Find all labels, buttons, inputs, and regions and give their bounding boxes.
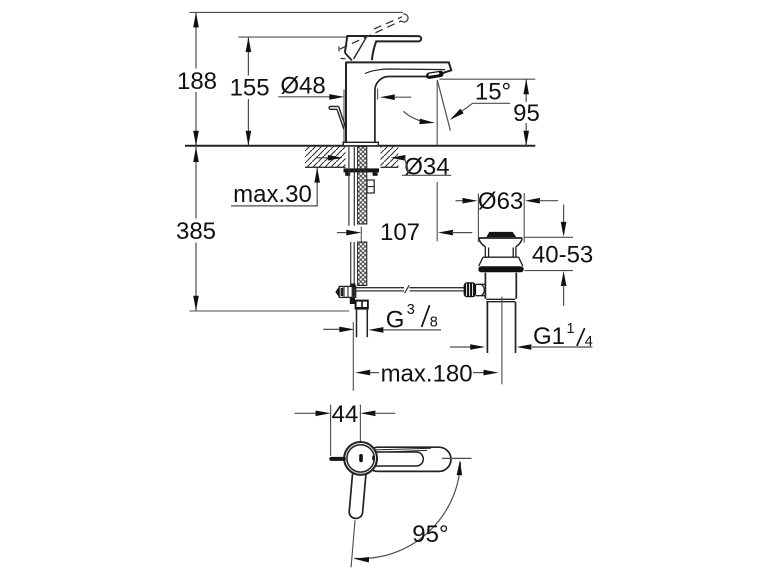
flexible hoses upper [349, 147, 354, 226]
15 deg arc [403, 111, 433, 122]
pop-up rod knurled knob [464, 282, 477, 297]
Ø48 extension line right [377, 89, 379, 100]
handle lever [345, 36, 421, 60]
handle raised dashed line 2 [374, 17, 402, 29]
pop-up waste flange cap [486, 232, 516, 237]
threaded shank lower [358, 242, 367, 286]
faucet base plate [343, 142, 378, 146]
deck bottom line [305, 166, 398, 168]
svg-text:95: 95 [513, 100, 540, 127]
95 deg arc arrowhead top [457, 460, 463, 475]
G1 1/4 arrow right [516, 344, 531, 350]
handle base left lower edge [345, 53, 352, 61]
max.180 arrow right [473, 372, 484, 374]
15 deg leader line [452, 103, 511, 118]
dimension Ø63 extension lines [478, 193, 524, 243]
dimension 155 line [247, 37, 249, 146]
top view pin [329, 457, 346, 461]
dimension 385 arrow bottom [193, 296, 199, 311]
Ø48 arrow left [329, 94, 344, 100]
dimension 385 line [195, 147, 197, 311]
pop-up waste tailpipe [487, 302, 515, 353]
G 3/8 underline [383, 329, 441, 331]
top view lever inner [352, 452, 423, 466]
handle base inner diagonal [354, 37, 367, 59]
95 deg arc [354, 462, 460, 559]
top view spout [349, 468, 367, 519]
threaded shank upper [358, 147, 367, 224]
flexible hoses lower [351, 242, 355, 298]
dimension 95 arrow top [523, 79, 529, 94]
pop-up waste O-ring [478, 266, 523, 272]
95 deg arc arrowhead bottom [354, 557, 369, 563]
dimension 188 arrow top [193, 12, 199, 27]
Ø48 leader underline [278, 96, 330, 98]
deck hatch right [381, 147, 399, 168]
supply pipe [357, 310, 368, 338]
pop-up waste body [485, 273, 516, 299]
svg-text:3: 3 [407, 302, 415, 318]
handle raised dashed tip curl [401, 14, 408, 22]
svg-text:G: G [386, 306, 405, 333]
pop-up waste bottom ring [486, 299, 515, 301]
G 3/8 arrowhead right [368, 327, 383, 333]
dimension 107 line left [337, 232, 348, 234]
svg-text:155: 155 [230, 75, 270, 102]
G 3/8 arrow left [323, 328, 341, 330]
dimension 107 arrow right [438, 230, 453, 236]
top view lever sliver lines [374, 448, 431, 452]
dimension 40-53 arrow lower [561, 271, 567, 286]
dimension 40-53 extension lines [525, 237, 574, 270]
pop-up rod joint fitting [339, 286, 356, 297]
dimension 95 line [525, 79, 527, 146]
svg-text:8: 8 [430, 315, 438, 331]
95 top extension line [440, 78, 536, 80]
Ø34 underline [402, 174, 451, 176]
faucet spout underside and fillet [375, 76, 427, 142]
svg-text:1: 1 [567, 321, 575, 337]
handle raised dashed bottom edge [341, 57, 348, 60]
svg-text:max.180: max.180 [381, 361, 473, 388]
dimension 188 arrow bottom [193, 131, 199, 146]
dimension 40-53 arrow upper [563, 205, 565, 224]
max.180 extension line left [352, 322, 354, 391]
dimension 188 extension line top [190, 11, 404, 13]
dimension 188 line [195, 12, 197, 145]
Ø34 arrow left [316, 157, 329, 159]
Ø48 extension line left [343, 90, 345, 144]
svg-text:188: 188 [177, 68, 217, 95]
max.30 arrowhead [314, 168, 320, 183]
svg-text:Ø34: Ø34 [404, 153, 449, 180]
15 deg arc arrowhead [419, 119, 434, 125]
svg-text:15°: 15° [475, 79, 511, 106]
svg-text:107: 107 [380, 219, 420, 246]
svg-text:95°: 95° [412, 521, 448, 548]
15 deg leader arrowhead [450, 109, 464, 120]
faucet centerline tick [360, 227, 362, 244]
mounting nut below deck [344, 168, 380, 172]
top view lever outer [366, 447, 451, 471]
faucet body outline [345, 62, 347, 142]
hose end fitting [350, 298, 355, 304]
svg-text:40-53: 40-53 [532, 241, 593, 268]
Ø34 arrow right with leader [390, 155, 405, 161]
dimension Ø63 arrows [456, 200, 465, 202]
dimension 107 arrow left [346, 230, 361, 236]
deck hatch left [305, 147, 346, 168]
deck line [185, 145, 535, 147]
horizontal pop-up rod [356, 288, 464, 291]
pop-up waste flange [479, 237, 523, 239]
handle raised dashed left edge [338, 47, 341, 55]
dimension 95 arrow bottom [523, 131, 529, 146]
dimension 44 arrow right [360, 411, 375, 417]
svg-text:max.30: max.30 [233, 181, 312, 208]
dimension 44 extension lines [331, 405, 361, 456]
faucet spout inner top line [365, 69, 445, 74]
svg-text:G1: G1 [533, 323, 565, 350]
aerator [426, 70, 444, 79]
svg-text:Ø63: Ø63 [478, 188, 523, 215]
pop-up waste neck [485, 247, 516, 257]
top view handle reference line [442, 457, 472, 459]
G1 1/4 arrow left [450, 346, 472, 348]
water stream 15 deg line [437, 80, 450, 131]
pop-up rod knob side view [329, 106, 346, 129]
svg-text:385: 385 [176, 218, 216, 245]
max.180 arrow left [355, 370, 370, 376]
top view cartridge marks [359, 454, 363, 462]
max.30 underline and leader [231, 168, 317, 206]
svg-text:44: 44 [332, 401, 359, 428]
dimension 44 arrow left [295, 412, 318, 414]
dimension 385 arrow top [193, 147, 199, 162]
rod guide fitting [367, 180, 374, 193]
hex nut on supply pipe [355, 300, 369, 310]
top view body circle [344, 442, 377, 475]
pop-up rod ball housing [476, 284, 485, 296]
spout outlet reference vertical line [436, 81, 438, 242]
top view spout extension line [351, 520, 355, 567]
dimension 155 arrow top [246, 37, 252, 52]
pop-up waste centerline [501, 297, 503, 385]
Ø48 arrow right tail [394, 96, 411, 98]
Ø48 arrow right [380, 94, 395, 100]
dimension 385 extension line bottom [190, 310, 350, 312]
pop-up waste shoulder [483, 256, 519, 258]
svg-text:Ø48: Ø48 [280, 73, 325, 100]
handle raised dashed line 1 [340, 21, 401, 49]
pop-up waste seal sides [479, 257, 523, 266]
G1 1/4 underline [532, 346, 592, 348]
dimension 155 arrow bottom [246, 131, 252, 146]
dimension 155 extension line [238, 36, 372, 38]
